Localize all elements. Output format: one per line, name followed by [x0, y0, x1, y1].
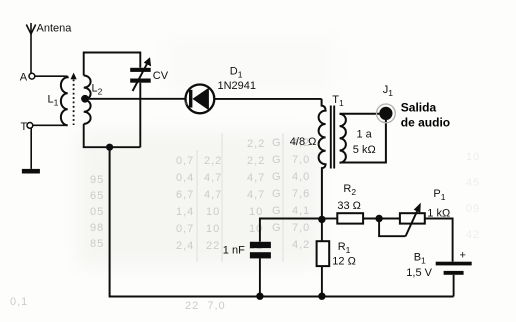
node A [20, 71, 35, 83]
svg-text:G: G [272, 137, 282, 149]
svg-text:1N2941: 1N2941 [218, 80, 257, 92]
diode D1 [185, 66, 257, 114]
svg-text:10: 10 [206, 206, 220, 218]
svg-text:98: 98 [90, 222, 104, 234]
svg-text:0,7: 0,7 [176, 223, 194, 235]
ferrite core (adjustable) [71, 73, 77, 125]
svg-text:65: 65 [90, 190, 104, 202]
wire L2 top loop [84, 53, 141, 76]
wire C top to junction [260, 219, 322, 242]
node wiper junction [375, 215, 382, 222]
svg-text:7,0: 7,0 [292, 222, 310, 234]
inductor L1 [48, 76, 68, 125]
wire CV bottom [139, 83, 141, 148]
svg-text:45: 45 [466, 177, 480, 189]
svg-text:7,6: 7,6 [292, 188, 310, 200]
wire battery to bottom rail [453, 275, 455, 297]
ground [22, 128, 40, 173]
svg-text:42: 42 [466, 229, 480, 241]
svg-text:T: T [21, 121, 28, 133]
svg-text:85: 85 [90, 238, 104, 250]
transformer T1 [290, 94, 376, 219]
svg-text:4,7: 4,7 [204, 172, 222, 184]
resistor R1 [317, 219, 356, 296]
wire diode to T1 [214, 98, 321, 100]
potentiometer P1 [379, 188, 450, 236]
svg-text:7,0: 7,0 [292, 154, 310, 166]
svg-text:4,1: 4,1 [292, 205, 310, 217]
wire L2 bottom loop [84, 124, 141, 147]
svg-text:95: 95 [90, 174, 104, 186]
antenna [26, 23, 35, 73]
capacitor 1nF [223, 242, 271, 296]
wire R2 to P1 [363, 218, 400, 220]
node junction (T1 / R2 / R1 / C) [318, 216, 325, 223]
svg-text:1 a: 1 a [357, 129, 373, 141]
svg-text:4,7: 4,7 [204, 189, 222, 201]
svg-text:G: G [272, 205, 282, 217]
svg-text:5 kΩ: 5 kΩ [353, 144, 376, 156]
svg-text:0,7: 0,7 [176, 155, 194, 167]
svg-text:Salida: Salida [401, 100, 437, 114]
wire tap to diode [85, 98, 185, 100]
svg-text:de audio: de audio [401, 116, 450, 130]
battery B1 [406, 250, 471, 279]
svg-text:G: G [272, 154, 282, 166]
svg-text:1,5 V: 1,5 V [406, 267, 432, 279]
svg-text:10: 10 [466, 151, 480, 163]
wire A to L1 [35, 75, 66, 77]
svg-text:4,2: 4,2 [292, 239, 310, 251]
svg-text:4,7: 4,7 [247, 172, 265, 184]
capacitor CV (variable) [130, 57, 169, 91]
svg-text:2,2: 2,2 [204, 155, 222, 167]
svg-text:33 Ω: 33 Ω [337, 200, 361, 212]
svg-text:0,4: 0,4 [176, 172, 194, 184]
node rail C [256, 293, 263, 300]
svg-text:+: + [460, 250, 466, 262]
svg-text:2,2: 2,2 [247, 155, 265, 167]
svg-text:10: 10 [249, 223, 263, 235]
svg-text:10: 10 [249, 206, 263, 218]
svg-text:G: G [272, 188, 282, 200]
node T [21, 121, 33, 133]
svg-text:12 Ω: 12 Ω [332, 255, 356, 267]
wire T to L1 [33, 124, 66, 126]
svg-text:4,7: 4,7 [247, 189, 265, 201]
svg-text:0,1: 0,1 [10, 296, 28, 308]
svg-text:1,4: 1,4 [176, 206, 194, 218]
svg-text:6,7: 6,7 [176, 189, 194, 201]
svg-text:4/8 Ω: 4/8 Ω [290, 136, 317, 148]
svg-text:CV: CV [153, 70, 169, 82]
svg-text:G: G [272, 222, 282, 234]
inductor L2 [84, 76, 103, 124]
node L2 tap [81, 95, 89, 103]
wire junction to R2 [322, 218, 337, 220]
resistor R2 [337, 183, 363, 224]
svg-text:1 nF: 1 nF [223, 245, 245, 257]
svg-text:G: G [272, 171, 282, 183]
svg-text:4,0: 4,0 [292, 171, 310, 183]
svg-text:09: 09 [466, 203, 480, 215]
svg-text:A: A [20, 71, 28, 83]
svg-text:2,4: 2,4 [176, 240, 194, 252]
node L2 loop bottom [106, 144, 113, 151]
svg-text:22 7,0: 22 7,0 [185, 300, 226, 312]
jack J1 [377, 84, 451, 130]
svg-text:2,2: 2,2 [247, 138, 265, 150]
svg-text:05: 05 [90, 206, 104, 218]
wire P1 to battery [425, 219, 453, 262]
node rail R1 [318, 293, 325, 300]
svg-text:Antena: Antena [37, 23, 73, 35]
svg-text:22: 22 [206, 240, 220, 252]
wire T1 secondary loop [340, 114, 386, 163]
wire bottom rail [110, 147, 454, 296]
svg-text:10: 10 [206, 223, 220, 235]
